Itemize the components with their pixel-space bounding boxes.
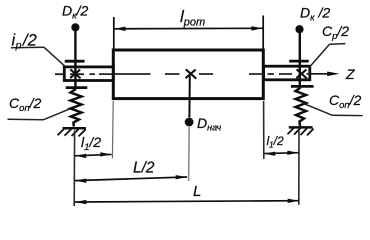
right bearing mass ball [295, 25, 303, 33]
dimension L [75, 201, 299, 202]
left disc tick [65, 60, 85, 63]
svg-text:Cоп/2: Cоп/2 [9, 95, 42, 114]
svg-text:l1/2: l1/2 [81, 134, 101, 153]
svg-text:Z: Z [345, 66, 355, 82]
left ground bar [63, 127, 87, 130]
dimension lrot line [114, 27, 263, 30]
svg-text:ip/2: ip/2 [12, 32, 37, 52]
leader Cop left [8, 109, 71, 120]
right spring top bar [291, 85, 314, 88]
dimension L/2 [75, 177, 187, 181]
Z axis arrow [310, 73, 328, 75]
lrot left extension [113, 17, 115, 49]
spring Cop left [71, 89, 82, 127]
node X right bearing [296, 69, 306, 78]
right shaft section [264, 66, 310, 80]
svg-text:Dк/2: Dк/2 [62, 3, 89, 22]
right bearing extension line [298, 131, 300, 205]
rotor body [113, 50, 263, 99]
lrot right extension [262, 16, 264, 49]
node X rotor centre [186, 69, 197, 78]
left bearing vertical rod [74, 31, 76, 88]
left shaft section [64, 67, 113, 81]
right disc tick [289, 60, 309, 63]
rotor left edge extension (faint) [111, 101, 114, 159]
left ground hatches [58, 129, 86, 137]
left bearing mass ball [71, 23, 79, 31]
dimension l1/2 left [75, 154, 112, 155]
left bearing extension line [73, 131, 75, 207]
right ground bar [289, 126, 313, 129]
Dnach hanging rod (black part) [188, 74, 190, 118]
centerline (dash-dot axis) [55, 73, 310, 75]
right bearing vertical rod [299, 33, 301, 87]
Dnach extension line (faint) [188, 127, 191, 181]
rotor right edge extension [263, 101, 265, 159]
svg-text:Dк /2: Dк /2 [300, 5, 330, 24]
svg-text:L: L [193, 183, 201, 200]
svg-text:lрот: lрот [180, 7, 205, 29]
leader Cp/2 [310, 44, 346, 67]
node X left bearing [70, 69, 80, 78]
spring Cop right [296, 88, 307, 126]
right ground hatches [288, 128, 314, 136]
Dnach mass ball [185, 118, 194, 127]
svg-text:Cоп/2: Cоп/2 [329, 92, 362, 111]
dimension l1/2 right [264, 152, 299, 155]
leader Cop right [304, 104, 363, 116]
svg-text:Cp/2: Cp/2 [322, 23, 349, 42]
leader ip/2 [11, 47, 65, 66]
svg-text:L/2: L/2 [133, 160, 155, 177]
left spring top bar [66, 86, 88, 89]
svg-text:l1/2: l1/2 [267, 134, 284, 150]
svg-text:Dнач: Dнач [197, 115, 221, 133]
